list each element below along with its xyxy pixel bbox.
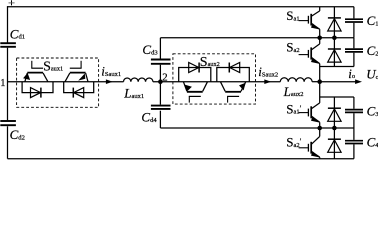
svg-text:Laux1: Laux1: [123, 86, 144, 101]
transistor Sa1p IGBT: [299, 97, 320, 128]
current arrow iSaux2: [264, 79, 271, 84]
capacitor C4: [345, 128, 363, 159]
svg-text:iSaux2: iSaux2: [258, 64, 278, 79]
svg-text:Cd1: Cd1: [10, 26, 25, 41]
svg-text:Cd4: Cd4: [141, 110, 157, 125]
wire left rail upper segment: [7, 6, 9, 42]
svg-text:Sa2′: Sa2′: [286, 135, 301, 150]
diode Sa2 antiparallel diode: [328, 38, 341, 67]
wire bottom DC rail: [8, 158, 354, 160]
wire Cd3 top to node between Sa1-Sa2: [160, 37, 319, 39]
svg-text:C4: C4: [367, 135, 378, 150]
diode Sa1 antiparallel diode: [328, 7, 341, 38]
wire Sa2 cell bottom row: [320, 66, 354, 68]
inductor Laux2: [280, 78, 312, 82]
diode Saux1 left antiparallel diode loop: [22, 82, 53, 98]
node row Sa1p-Sa2p junction: [320, 127, 354, 129]
wire output with current arrow io: [320, 81, 357, 83]
junction dot Sa1p-Sa2p at IGBT line: [317, 126, 322, 131]
wire left rail lower segment: [7, 126, 9, 158]
transistor Sa2p IGBT: [299, 128, 320, 159]
output node junction dot: [317, 79, 322, 84]
auxiliary switch Saux1 dashed box: [17, 58, 99, 107]
wire output node down to Sa1p cell: [319, 82, 321, 97]
svg-text:Cd3: Cd3: [142, 42, 158, 57]
capacitor Cd3 with leads: [159, 38, 161, 59]
junction dot Sa1p-Sa2p at diode line: [332, 126, 337, 131]
svg-text:Saux1: Saux1: [43, 60, 63, 75]
diode Saux2 left antiparallel diode loop: [179, 63, 211, 82]
wire Laux2 to output node: [312, 81, 320, 83]
svg-text:C1: C1: [367, 13, 378, 28]
svg-text:Sa1′: Sa1′: [286, 101, 301, 116]
wire top DC rail (+): [8, 6, 354, 8]
svg-text:io: io: [348, 66, 355, 81]
wire node1 to Laux1 (through Saux1 box): [8, 81, 124, 83]
capacitor Cd1: [0, 42, 16, 44]
transistor Saux1 left IGBT: [23, 61, 48, 82]
transistor Sa1 IGBT: [299, 7, 320, 38]
capacitor C3: [345, 97, 363, 128]
svg-text:Laux2: Laux2: [283, 84, 304, 99]
plus polarity label: [11, 0, 13, 5]
svg-text:Cd2: Cd2: [10, 127, 25, 142]
transistor Saux2 left IGBT: [183, 82, 207, 103]
inductor Laux1: [124, 78, 153, 82]
transistor Saux2 right IGBT: [220, 82, 245, 103]
auxiliary switch Saux2 dashed box: [173, 54, 256, 104]
wire Sa2 emitter to output node: [319, 67, 321, 82]
diode Saux2 right antiparallel diode loop: [217, 63, 250, 82]
wire left rail middle segment: [7, 48, 9, 121]
diode Sa2p antiparallel diode: [328, 128, 341, 159]
node 2 junction dot: [158, 79, 163, 84]
capacitor Cd4 with leads: [159, 82, 161, 105]
diode Saux1 right antiparallel diode loop: [64, 82, 94, 98]
junction dot Sa1-Sa2 at IGBT line: [317, 36, 322, 41]
capacitor C2: [345, 38, 363, 67]
svg-text:Sa1: Sa1: [286, 8, 299, 23]
svg-text:iSaux1: iSaux1: [101, 64, 121, 79]
wire Cd4 bottom to node between Sa1p-Sa2p: [160, 127, 319, 129]
wire Laux1 to Laux2 (through node2 and Saux2 box): [153, 81, 280, 83]
svg-text:Uo: Uo: [366, 67, 378, 82]
junction dot Sa1-Sa2 at diode line: [332, 36, 337, 41]
node row Sa1-Sa2 junction: [320, 37, 354, 39]
svg-text:1: 1: [0, 78, 5, 89]
current arrow iSaux1: [106, 79, 113, 84]
capacitor Cd2: [0, 120, 16, 122]
svg-text:2: 2: [162, 71, 167, 83]
wire Sa1p cell top row: [320, 96, 354, 98]
diode Sa1p antiparallel diode: [328, 97, 341, 128]
capacitor C1: [345, 7, 363, 38]
svg-text:C2: C2: [367, 43, 378, 58]
transistor Sa2 IGBT: [299, 38, 320, 67]
svg-text:C3: C3: [367, 104, 378, 119]
transistor Saux1 right IGBT: [65, 61, 88, 82]
svg-text:Sa2: Sa2: [286, 40, 299, 55]
